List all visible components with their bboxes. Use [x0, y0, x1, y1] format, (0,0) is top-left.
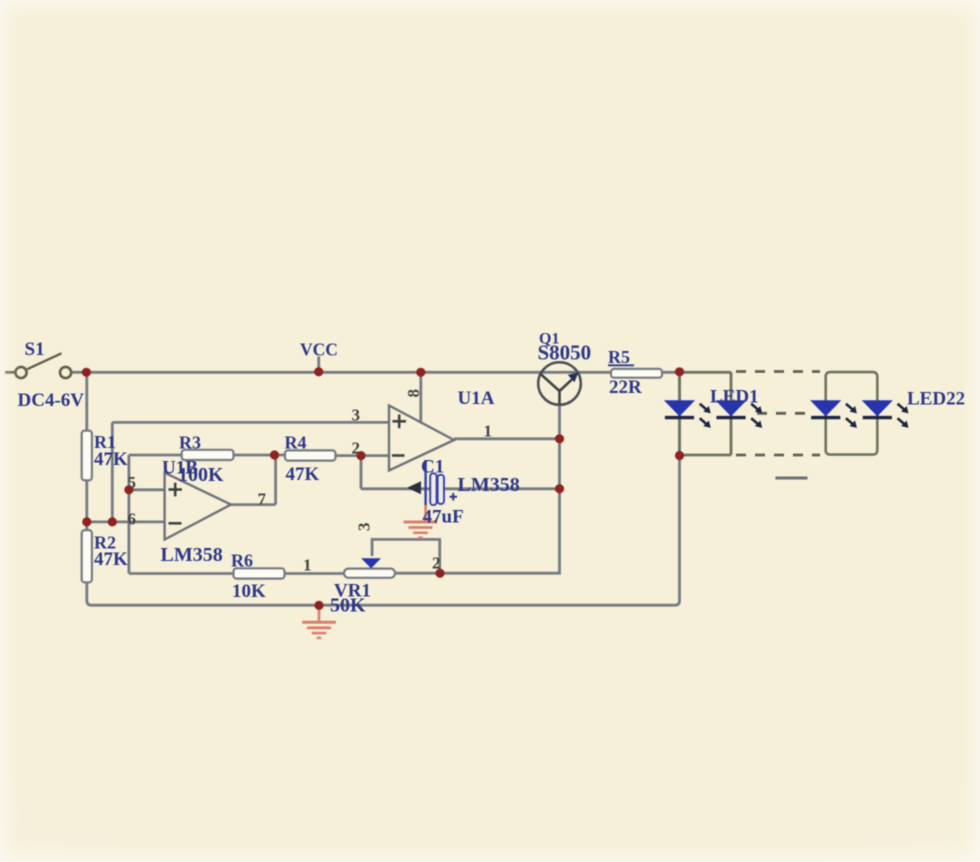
svg-text:C1: C1: [421, 457, 444, 478]
svg-text:10K: 10K: [232, 581, 266, 602]
svg-text:U1B: U1B: [162, 458, 198, 479]
svg-text:50K: 50K: [330, 595, 366, 617]
svg-text:LM358: LM358: [458, 474, 520, 496]
svg-text:3: 3: [352, 406, 361, 425]
svg-text:2: 2: [352, 439, 361, 458]
svg-text:1: 1: [484, 422, 493, 441]
svg-text:47K: 47K: [94, 449, 128, 470]
svg-text:R3: R3: [179, 433, 201, 453]
svg-text:VCC: VCC: [300, 340, 338, 360]
svg-text:47K: 47K: [94, 549, 128, 570]
svg-text:R4: R4: [285, 433, 307, 453]
svg-text:1: 1: [303, 556, 312, 575]
svg-text:6: 6: [128, 510, 137, 529]
svg-text:U1A: U1A: [458, 388, 495, 409]
svg-text:LM358: LM358: [161, 544, 223, 566]
svg-text:7: 7: [258, 490, 267, 509]
svg-text:2: 2: [432, 554, 441, 573]
svg-text:S1: S1: [25, 339, 45, 360]
svg-text:5: 5: [128, 473, 137, 492]
svg-text:3: 3: [355, 523, 374, 532]
svg-text:R6: R6: [231, 551, 253, 571]
svg-text:S8050: S8050: [538, 341, 592, 365]
svg-text:47uF: 47uF: [423, 507, 464, 528]
svg-text:LED1: LED1: [710, 387, 759, 408]
svg-text:47K: 47K: [286, 464, 320, 485]
svg-text:LED22: LED22: [907, 389, 965, 410]
svg-text:R5: R5: [608, 347, 630, 367]
svg-text:22R: 22R: [609, 377, 642, 398]
svg-text:DC4-6V: DC4-6V: [18, 390, 85, 411]
svg-text:8: 8: [404, 389, 423, 398]
